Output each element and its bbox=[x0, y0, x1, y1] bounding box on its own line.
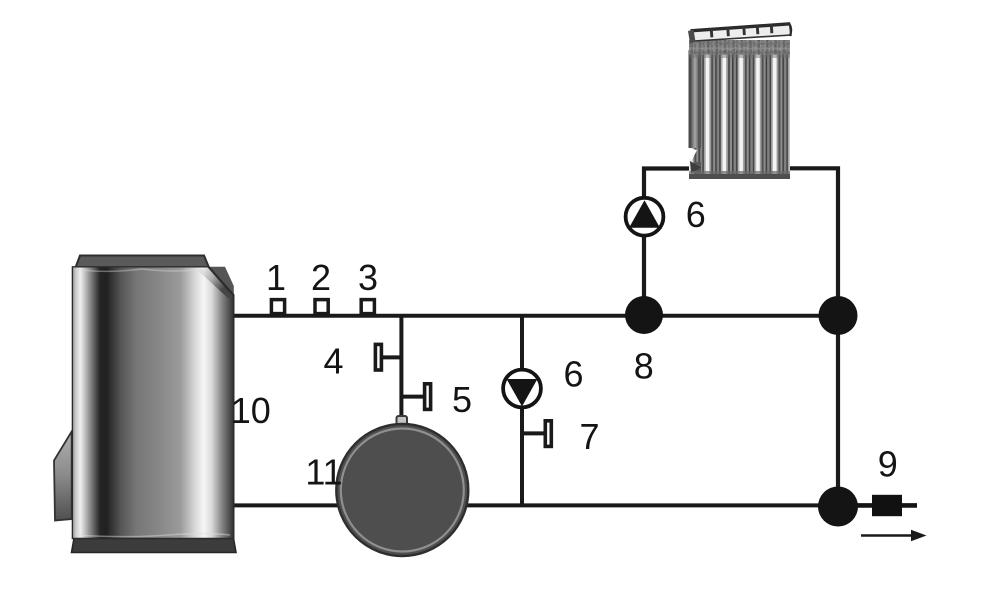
label 10 bbox=[231, 390, 271, 431]
flow arrow bbox=[861, 530, 927, 541]
expansion tank 11 bbox=[336, 416, 468, 556]
radiator bbox=[688, 24, 791, 180]
label 7 bbox=[579, 416, 599, 457]
wire radiator right link bbox=[778, 166, 838, 507]
svg-text:5: 5 bbox=[452, 379, 472, 420]
svg-text:4: 4 bbox=[323, 341, 343, 382]
pump 6 upper bbox=[626, 198, 664, 236]
label 11 bbox=[305, 452, 342, 493]
wire return bottom pipe bbox=[232, 503, 838, 507]
valve 7 bbox=[522, 421, 551, 447]
wire pump branch bbox=[520, 315, 524, 505]
svg-text:10: 10 bbox=[231, 390, 271, 431]
svg-text:7: 7 bbox=[579, 416, 599, 457]
fitting 3 bbox=[361, 300, 374, 314]
label 6 upper bbox=[686, 194, 706, 235]
svg-text:6: 6 bbox=[686, 194, 706, 235]
svg-text:1: 1 bbox=[266, 257, 286, 298]
pump 6 middle bbox=[503, 370, 541, 408]
label 2 bbox=[311, 257, 331, 298]
label 8 bbox=[634, 346, 654, 387]
svg-text:3: 3 bbox=[358, 257, 378, 298]
valve 5 bbox=[401, 384, 430, 410]
node bottom-right junction bbox=[818, 487, 858, 527]
label 6 middle bbox=[563, 354, 583, 395]
svg-text:8: 8 bbox=[634, 346, 654, 387]
label 4 bbox=[323, 341, 343, 382]
valve 4 bbox=[375, 344, 401, 370]
svg-text:11: 11 bbox=[305, 452, 342, 493]
wire node8 riser bbox=[644, 169, 700, 317]
fitting 2 bbox=[315, 300, 328, 314]
node 8 junction bbox=[625, 296, 663, 334]
label 1 bbox=[266, 257, 286, 298]
fitting 1 bbox=[271, 300, 284, 314]
valve 9 bbox=[872, 495, 902, 516]
wire supply top pipe bbox=[233, 314, 838, 318]
wire outlet stub bbox=[838, 503, 917, 508]
svg-text:6: 6 bbox=[563, 354, 583, 395]
svg-text:2: 2 bbox=[311, 257, 331, 298]
boiler 10 bbox=[54, 256, 236, 553]
svg-text:9: 9 bbox=[878, 444, 898, 485]
node top-right junction bbox=[819, 296, 858, 335]
label 3 bbox=[358, 257, 378, 298]
label 9 bbox=[878, 444, 898, 485]
label 5 bbox=[452, 379, 472, 420]
wire tank branch bbox=[399, 315, 403, 420]
